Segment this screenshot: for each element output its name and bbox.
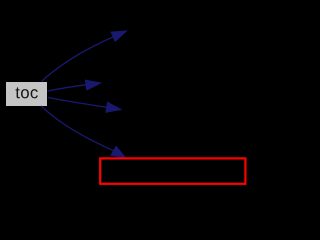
node toc [6,82,47,106]
arrowhead edge 1 [111,31,126,41]
wire edge 3 (toc to right node B) [48,98,107,108]
label toc [16,87,38,98]
wire edge 2 (toc to right node A) [48,85,88,91]
arrowhead edge 4 [111,147,126,159]
node truncated (red) [100,158,245,183]
arrowhead edge 3 [106,102,121,112]
wire edge 4 (toc to red node) [41,106,114,151]
wire edge 1 (toc to top-right node) [42,37,115,82]
arrowhead edge 2 [85,80,100,90]
